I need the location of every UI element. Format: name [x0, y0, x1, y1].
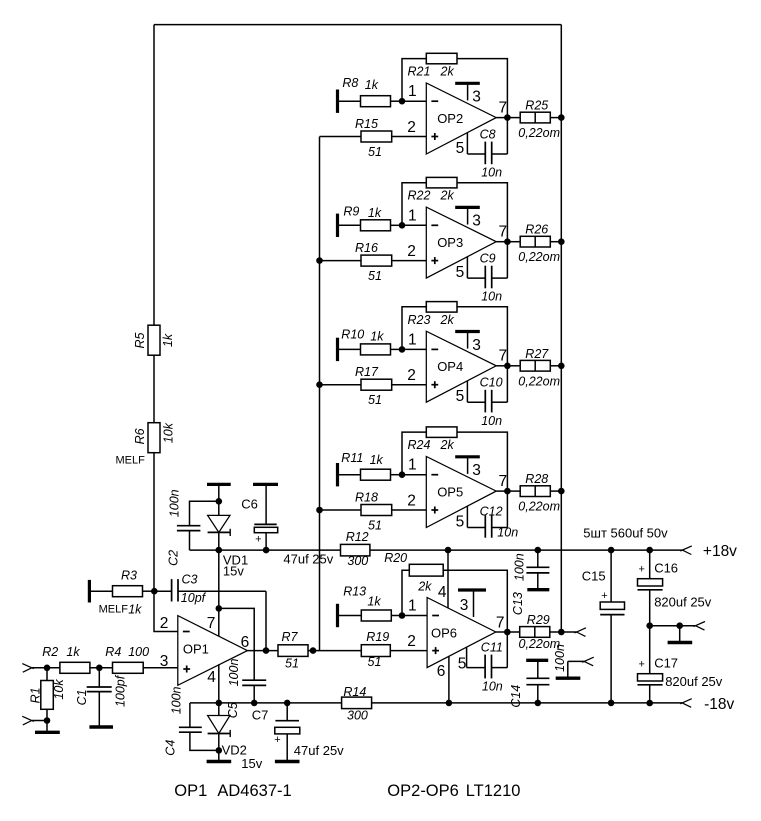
capacitor C8 10n: [467, 127, 507, 179]
svg-text:0,22om: 0,22om: [518, 374, 560, 388]
svg-text:C12: C12: [480, 504, 503, 518]
ground C13: [527, 588, 549, 591]
resistor R27 0,22om: [518, 347, 561, 389]
ground for R3: [89, 580, 112, 603]
ground for R13: [338, 604, 362, 627]
resistor R2 1k: [42, 645, 112, 673]
svg-text:10n: 10n: [497, 526, 518, 540]
svg-text:51: 51: [368, 269, 382, 283]
pin 5 label OP3: [456, 264, 465, 281]
ground C6: [253, 483, 278, 486]
svg-text:R6: R6: [133, 428, 147, 444]
pin 4 label OP6: [438, 584, 447, 601]
svg-text:R19: R19: [366, 630, 389, 644]
node output OP3: [504, 238, 511, 245]
svg-text:6: 6: [437, 663, 446, 680]
svg-text:AD4637-1: AD4637-1: [217, 782, 291, 800]
pin 1 label OP4: [408, 331, 417, 348]
pin 3 label OP5: [472, 462, 481, 479]
ground pin 3 OP2: [455, 83, 480, 100]
wire global feedback top rail: [154, 24, 561, 26]
capacitor C17 820uf 25v: [638, 626, 723, 707]
node output OP6: [504, 629, 511, 636]
pin 4 stub OP6: [445, 547, 452, 608]
svg-text:100n: 100n: [227, 659, 241, 687]
svg-text:1k: 1k: [128, 603, 142, 617]
terminal output ground: [556, 657, 594, 678]
resistor R16 51: [355, 241, 426, 283]
ground for R11: [338, 463, 361, 486]
svg-text:7: 7: [496, 614, 505, 631]
pin 5 label OP2: [456, 140, 465, 157]
svg-text:5: 5: [456, 264, 465, 281]
svg-text:OP2: OP2: [437, 111, 463, 126]
capacitor C2 100n: [167, 489, 219, 566]
svg-text:0,22om: 0,22om: [518, 500, 560, 514]
caption OP2-OP6 type: [387, 782, 520, 800]
svg-text:C6: C6: [241, 497, 258, 512]
wire output OP4: [496, 365, 520, 367]
label -18v: [704, 696, 734, 713]
svg-text:MELF: MELF: [116, 455, 146, 467]
wire OP1 output: [247, 650, 278, 652]
svg-text:100pf: 100pf: [114, 674, 128, 707]
pin 1 label OP2: [408, 83, 417, 100]
svg-text:OP1: OP1: [183, 642, 209, 657]
resistor R12 300: [341, 530, 370, 568]
svg-text:10n: 10n: [481, 290, 502, 304]
svg-text:R23: R23: [408, 313, 431, 327]
op-amp OP1: [178, 616, 248, 686]
resistor R14 300: [342, 685, 683, 722]
node pin7 branch: [216, 605, 223, 612]
svg-text:47uf 25v: 47uf 25v: [283, 552, 333, 567]
svg-text:R16: R16: [355, 241, 378, 255]
svg-text:R24: R24: [408, 438, 431, 452]
pin 2 label OP4: [407, 367, 416, 384]
node pin1 OP5: [399, 471, 406, 478]
svg-text:OP2-OP6: OP2-OP6: [387, 782, 459, 800]
wire +18 rail: [370, 549, 682, 551]
svg-text:51: 51: [368, 145, 382, 159]
node pin1 OP6: [399, 612, 406, 619]
svg-text:10n: 10n: [481, 414, 502, 428]
wire C3 to output: [265, 591, 267, 650]
svg-text:1k: 1k: [161, 333, 175, 347]
node VD1 top: [216, 498, 223, 505]
resistor R4 100: [105, 645, 178, 673]
terminal output: [561, 628, 586, 637]
resistor R8 1k: [342, 76, 402, 107]
caption OP1 type: [174, 782, 291, 800]
pin 2 label OP6: [407, 633, 416, 650]
wire -15 rail west: [190, 702, 342, 704]
svg-text:3: 3: [160, 653, 169, 670]
pin 1 label OP3: [408, 207, 417, 224]
resistor R9 1k: [343, 204, 402, 230]
svg-text:OP6: OP6: [431, 626, 457, 641]
wire input gnd: [32, 717, 51, 724]
svg-text:820uf 25v: 820uf 25v: [665, 674, 723, 689]
wire pin1 OP2: [402, 100, 426, 102]
svg-text:2: 2: [407, 493, 416, 510]
wire output OP2: [496, 117, 520, 119]
svg-text:2: 2: [407, 119, 416, 136]
svg-text:OP3: OP3: [437, 235, 463, 250]
ground pin 3 OP4: [455, 332, 480, 349]
svg-text:4: 4: [207, 669, 216, 686]
pin 5 label OP6: [458, 656, 467, 673]
node pin4 rail: [216, 700, 223, 707]
pin 6 stub OP6: [448, 656, 450, 703]
svg-text:R9: R9: [343, 204, 359, 218]
resistor R26 0,22om: [518, 223, 561, 265]
wire 51-ohm input bus: [319, 137, 321, 651]
zener diode VD2 15v: [208, 703, 263, 771]
resistor R15 51: [355, 117, 426, 159]
node VD2 bottom: [216, 747, 223, 754]
node bus R16: [316, 257, 323, 264]
svg-text:10k: 10k: [162, 422, 176, 443]
node output OP2: [504, 114, 511, 121]
svg-text:C9: C9: [480, 251, 496, 265]
capacitor C1 100pf: [75, 668, 128, 727]
node pin1 OP4: [399, 346, 406, 353]
pin 2 label OP5: [407, 493, 416, 510]
capacitor C6 47uf 25v: [241, 484, 333, 566]
svg-text:5: 5: [456, 514, 465, 531]
op-amp OP4: [426, 331, 496, 402]
resistor R23 2k: [402, 302, 507, 403]
resistor R22 2k: [402, 177, 507, 278]
svg-text:C10: C10: [480, 376, 503, 390]
svg-text:R18: R18: [355, 491, 378, 505]
resistor R25 0,22om: [518, 99, 561, 141]
svg-text:+: +: [274, 734, 280, 746]
op-amp OP2: [426, 83, 496, 154]
pin 7 label OP6: [496, 614, 505, 631]
svg-text:100: 100: [128, 645, 149, 659]
resistor R10 1k: [341, 328, 402, 355]
capacitor C4 100n: [163, 686, 218, 755]
svg-text:47uf 25v: 47uf 25v: [294, 743, 344, 758]
capacitor C16 820uf 25v: [638, 547, 712, 626]
svg-text:MELF: MELF: [99, 604, 129, 616]
node output OP5: [504, 488, 511, 495]
wire output OP3: [496, 241, 520, 243]
svg-text:5: 5: [458, 656, 467, 673]
pin 7 label OP5: [498, 473, 507, 490]
node bus output OP4: [558, 363, 565, 370]
svg-text:51: 51: [368, 655, 382, 669]
node output OP4: [504, 363, 511, 370]
svg-text:R11: R11: [341, 451, 363, 465]
node output OP1: [263, 647, 270, 654]
svg-text:51: 51: [368, 393, 382, 407]
capacitor C9 10n: [467, 251, 507, 303]
capacitor C7 47uf 25v: [252, 703, 344, 762]
svg-text:100n: 100n: [168, 489, 182, 517]
resistor R17 51: [355, 365, 426, 407]
svg-text:15v: 15v: [241, 756, 262, 771]
svg-text:R20: R20: [384, 551, 407, 565]
ground for R10: [338, 338, 361, 361]
node pin1 OP2: [399, 98, 406, 105]
svg-text:3: 3: [472, 337, 481, 354]
resistor R7 51: [278, 630, 308, 671]
pin 7 label OP4: [498, 348, 507, 365]
node C6 bottom: [263, 547, 270, 554]
pin 2 label OP2: [407, 119, 416, 136]
terminal +18v: [680, 546, 692, 555]
wire pin7 bypass branch: [219, 608, 254, 680]
pin 3 label OP6: [460, 597, 469, 614]
svg-text:C17: C17: [654, 655, 678, 670]
svg-text:3: 3: [472, 213, 481, 230]
label quantity note: [583, 526, 668, 541]
capacitor C5 100n: [226, 659, 266, 719]
svg-text:1k: 1k: [365, 78, 379, 92]
pin 3 label OP4: [472, 337, 481, 354]
resistor R24 2k: [402, 427, 507, 528]
svg-text:2: 2: [407, 367, 416, 384]
svg-text:1k: 1k: [370, 330, 384, 344]
svg-text:LT1210: LT1210: [466, 782, 521, 800]
capacitor C13 100n: [511, 547, 550, 615]
svg-text:C16: C16: [654, 560, 678, 575]
terminal input ground: [22, 716, 34, 725]
ground VD2: [207, 750, 232, 761]
wire +15 rail west: [190, 549, 341, 551]
capacitor label 100n output: [553, 644, 567, 672]
svg-text:2: 2: [407, 243, 416, 260]
svg-text:+: +: [601, 590, 607, 602]
node bus R17: [316, 381, 323, 388]
svg-text:2k: 2k: [440, 65, 455, 79]
terminal -18v: [680, 699, 692, 708]
resistor R1 10k: [28, 668, 65, 721]
svg-text:5: 5: [456, 140, 465, 157]
node bus output OP2: [558, 114, 565, 121]
svg-text:R15: R15: [355, 117, 378, 131]
svg-text:1: 1: [408, 207, 417, 224]
svg-text:100n: 100n: [553, 644, 567, 672]
svg-text:10pf: 10pf: [181, 591, 207, 605]
svg-text:10k: 10k: [52, 679, 66, 700]
capacitor C11 10n: [467, 640, 508, 693]
svg-text:2: 2: [407, 633, 416, 650]
svg-text:OP4: OP4: [437, 359, 463, 374]
resistor R20 2k: [384, 551, 507, 668]
svg-text:51: 51: [368, 519, 382, 533]
svg-text:R27: R27: [525, 347, 549, 361]
pin 6 label OP1: [241, 634, 250, 651]
svg-text:+: +: [638, 563, 644, 575]
svg-text:1k: 1k: [66, 645, 80, 659]
pin 3 label OP1: [160, 653, 169, 670]
ground VD1: [207, 483, 231, 486]
svg-text:2k: 2k: [417, 580, 432, 594]
svg-text:0,22om: 0,22om: [518, 126, 560, 140]
resistor R29 0,22om: [519, 613, 562, 651]
label +18v: [703, 543, 737, 560]
svg-text:C4: C4: [163, 740, 177, 756]
ground pin 3 OP3: [455, 207, 480, 224]
pin 6 label OP6: [437, 663, 446, 680]
svg-text:R28: R28: [525, 472, 548, 486]
node bus R18: [316, 507, 323, 514]
svg-text:R13: R13: [343, 585, 366, 599]
svg-text:4: 4: [438, 584, 447, 601]
svg-text:R2: R2: [42, 645, 58, 659]
node pin1 OP3: [399, 222, 406, 229]
ground pin 3 OP6: [458, 590, 486, 617]
svg-text:-18v: -18v: [704, 696, 734, 713]
node C16 C17 mid: [646, 622, 653, 629]
resistor R3 1k MELF: [99, 569, 154, 617]
svg-text:1: 1: [408, 598, 417, 615]
resistor R5 1k: [133, 325, 175, 423]
ground for R8: [338, 90, 361, 113]
pin 7 label OP1: [207, 615, 216, 632]
svg-text:1k: 1k: [367, 595, 381, 609]
svg-text:2k: 2k: [440, 313, 455, 327]
svg-text:R1: R1: [28, 687, 42, 703]
node C7 rail: [284, 700, 291, 707]
pin 2 label OP3: [407, 243, 416, 260]
resistor R19 51: [308, 630, 427, 669]
zener diode VD1 15v: [208, 484, 249, 578]
svg-text:1k: 1k: [368, 206, 382, 220]
pin 5 label OP5: [456, 514, 465, 531]
wire bus to R18: [320, 509, 362, 511]
node VD1 bottom: [216, 547, 223, 554]
svg-text:15v: 15v: [223, 564, 244, 579]
wire pin1 OP3: [402, 224, 426, 226]
svg-text:OP5: OP5: [437, 484, 463, 499]
wire mid to terminal: [650, 622, 696, 629]
svg-text:C2: C2: [167, 550, 181, 566]
wire output OP6: [496, 631, 520, 633]
svg-text:C7: C7: [252, 707, 269, 722]
terminal input signal: [22, 664, 34, 673]
svg-text:C14: C14: [509, 685, 523, 708]
svg-text:R3: R3: [121, 569, 137, 583]
node C1 junction: [96, 665, 103, 672]
wire bus to R17: [320, 384, 362, 386]
wire output OP5: [496, 490, 520, 492]
svg-text:R17: R17: [355, 365, 379, 379]
svg-text:100n: 100n: [513, 553, 527, 581]
svg-text:1k: 1k: [370, 453, 384, 467]
svg-text:R25: R25: [525, 99, 548, 113]
svg-text:5: 5: [456, 388, 465, 405]
pin 1 label OP6: [408, 598, 417, 615]
svg-text:R21: R21: [408, 65, 431, 79]
node bus output OP3: [558, 238, 565, 245]
pin 2 label OP1: [160, 615, 169, 632]
ground for R9: [338, 214, 361, 237]
svg-text:1: 1: [408, 331, 417, 348]
pin 4 label OP1: [207, 669, 216, 686]
op-amp OP6: [427, 598, 496, 668]
svg-text:300: 300: [347, 709, 368, 723]
capacitor C3 10pf: [154, 573, 266, 606]
svg-text:C15: C15: [582, 569, 606, 584]
svg-text:C11: C11: [481, 640, 503, 654]
node feedback junction: [151, 588, 158, 595]
svg-text:10n: 10n: [481, 166, 502, 180]
svg-text:C8: C8: [480, 127, 496, 141]
pin 1 label OP5: [408, 457, 417, 474]
wire input to R2: [32, 665, 60, 672]
pin 5 label OP4: [456, 388, 465, 405]
wire pin1 OP6: [402, 615, 427, 617]
svg-text:5шт 560uf 50v: 5шт 560uf 50v: [583, 526, 668, 541]
svg-text:3: 3: [460, 597, 469, 614]
svg-text:6: 6: [241, 634, 250, 651]
svg-text:OP1: OP1: [174, 782, 207, 800]
svg-text:10n: 10n: [482, 679, 503, 693]
resistor R21 2k: [402, 53, 507, 154]
ground pin 3 OP5: [455, 457, 480, 474]
op-amp OP5: [426, 457, 496, 528]
svg-text:1: 1: [408, 457, 417, 474]
op-amp OP3: [426, 207, 496, 278]
svg-text:R7: R7: [282, 630, 299, 644]
node bus output OP5: [558, 488, 565, 495]
wire output bus right side: [560, 25, 562, 632]
terminal mid ground: [694, 622, 706, 631]
svg-text:R12: R12: [346, 530, 369, 544]
svg-text:R4: R4: [105, 645, 121, 659]
svg-text:100n: 100n: [170, 686, 184, 714]
svg-text:820uf 25v: 820uf 25v: [654, 595, 712, 610]
wire left feedback column upper: [153, 25, 155, 326]
capacitor C10 10n: [467, 376, 507, 428]
svg-text:7: 7: [207, 615, 216, 632]
resistor R6 10k MELF: [116, 422, 176, 591]
svg-text:+18v: +18v: [703, 543, 737, 560]
svg-text:51: 51: [285, 657, 299, 671]
capacitor C14 100n: [509, 660, 550, 707]
svg-text:1: 1: [408, 83, 417, 100]
resistor R13 1k: [343, 585, 402, 622]
pin 7 label OP3: [498, 224, 507, 241]
svg-text:R26: R26: [525, 223, 548, 237]
svg-text:7: 7: [498, 224, 507, 241]
svg-text:C3: C3: [182, 573, 198, 587]
node C5 rail: [251, 700, 258, 707]
ground C7: [275, 760, 300, 763]
svg-text:7: 7: [498, 473, 507, 490]
resistor R18 51: [355, 491, 426, 533]
node bus output OP6: [558, 629, 565, 636]
svg-text:R8: R8: [342, 76, 358, 90]
svg-text:2k: 2k: [440, 438, 455, 452]
svg-text:+: +: [638, 658, 644, 670]
svg-text:7: 7: [498, 99, 507, 116]
wire feedback node to OP1 -in: [154, 591, 178, 631]
pin 4 stub OP1: [218, 664, 220, 703]
svg-text:300: 300: [347, 554, 368, 568]
svg-text:0,22om: 0,22om: [518, 250, 560, 264]
ground mid: [668, 626, 693, 643]
svg-text:R14: R14: [343, 685, 366, 699]
resistor R28 0,22om: [518, 472, 561, 513]
pin 7 label OP2: [498, 99, 507, 116]
svg-text:+: +: [255, 534, 261, 546]
